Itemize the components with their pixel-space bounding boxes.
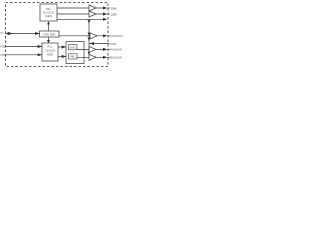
pin stubs outside boundary [107,8,110,57]
svg-text:GEN: GEN [47,52,54,56]
buffer U3 [89,11,96,17]
svg-text:PCA(X)O: PCA(X)O [111,48,123,52]
svg-text:GPA: GPA [111,42,117,46]
wire bit clock out [77,56,107,59]
svg-text:XI: XI [0,31,3,35]
svg-text:MCKO(X): MCKO(X) [111,34,123,38]
buffer U9 [89,54,96,60]
wire clock trunk (vertical) [88,19,91,57]
wire PLL2 to sync [58,45,66,48]
buffer U8 [89,46,96,52]
buffer U5 [90,33,97,39]
interface block U7 [66,42,84,64]
wire PLL2 to reg [58,55,66,58]
sync sub-block [69,45,78,50]
svg-text:REG: REG [70,56,75,59]
wire U1 to control register [47,21,50,31]
input pin FSE [0,45,42,49]
wire control register to PLL2 [47,37,50,43]
PLL clock gen block U1 [40,4,57,21]
control register block U4 [40,31,60,37]
svg-text:256K: 256K [111,6,118,10]
PLL clock gen block U6 [42,43,58,61]
wire pcm clock out [77,48,107,51]
input pin FSW [0,53,42,57]
svg-text:FSE: FSE [0,45,5,49]
svg-text:GEN: GEN [45,14,52,18]
svg-text:BCA(X)O: BCA(X)O [111,56,123,60]
buffer U2 [89,5,96,11]
reg sub-block [69,54,78,59]
crystal input pin XI [0,31,39,35]
svg-text:SYNC: SYNC [69,46,76,49]
svg-text:128K: 128K [111,12,118,16]
wire clock out 2 [57,12,107,15]
wire control register to master clock out [59,34,107,37]
chip boundary (dashed) [6,3,109,67]
svg-text:CTRL REG: CTRL REG [43,33,56,37]
wire clock out 1 [57,6,107,9]
wire clock out 3 [57,18,107,21]
input pin SCKI [89,42,116,46]
